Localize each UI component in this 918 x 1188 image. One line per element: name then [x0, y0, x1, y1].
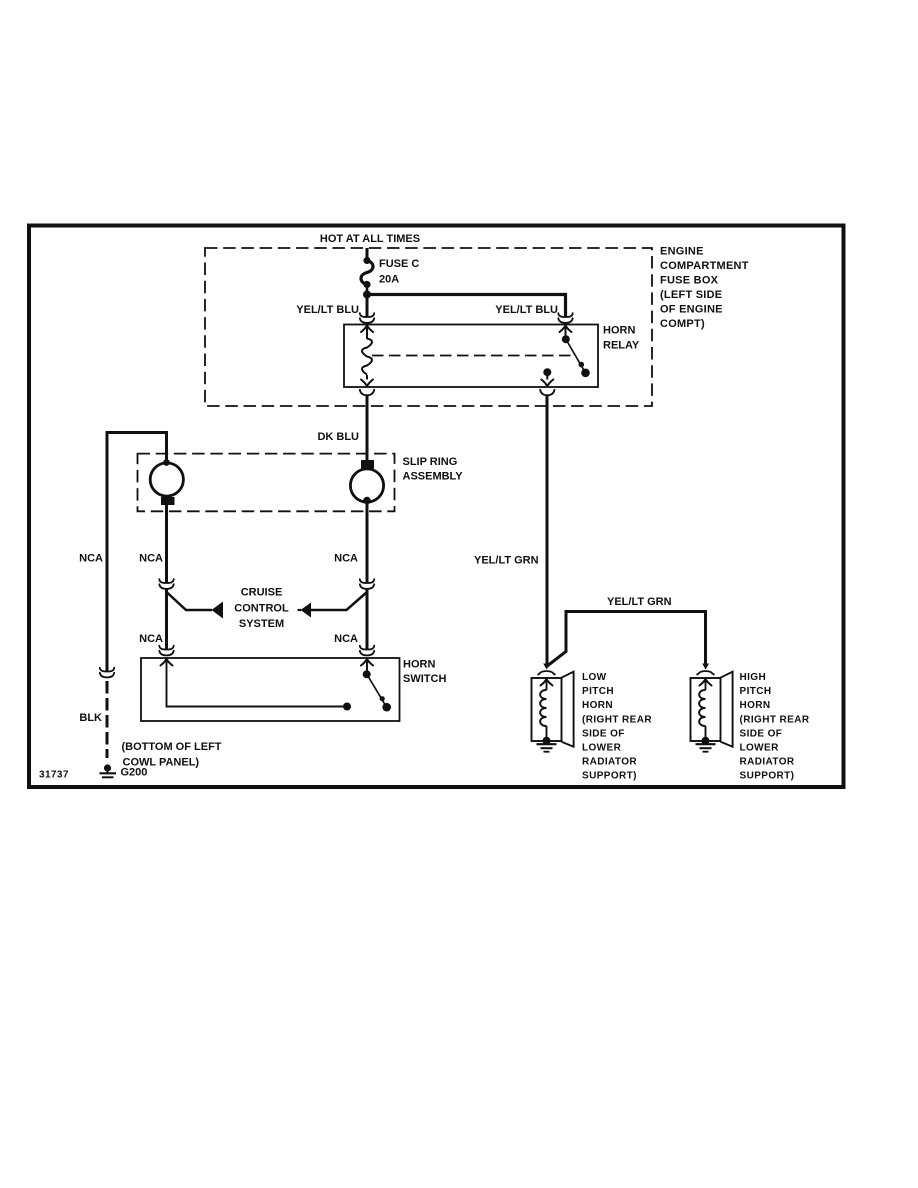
slip ring assembly dashed box	[138, 454, 395, 512]
wire arrow to switch pivot	[565, 326, 567, 340]
svg-text:ENGINE: ENGINE	[660, 246, 704, 258]
svg-text:ASSEMBLY: ASSEMBLY	[403, 470, 464, 482]
label CRUISE CONTROL SYSTEM	[234, 587, 289, 631]
svg-text:OF ENGINE: OF ENGINE	[660, 304, 723, 316]
svg-text:SYSTEM: SYSTEM	[239, 618, 284, 630]
connector (ground leg BLK)	[100, 668, 114, 678]
junction node	[363, 291, 371, 299]
relay switch pivot node	[562, 335, 570, 343]
wire fuse to junction	[366, 285, 369, 295]
svg-text:SIDE OF: SIDE OF	[740, 728, 783, 739]
svg-text:SLIP RING: SLIP RING	[403, 456, 458, 468]
relay coil terminal arrow	[361, 326, 373, 333]
svg-text:FUSE C: FUSE C	[379, 258, 419, 270]
wire right wire between connectors	[366, 589, 369, 650]
label HIGH PITCH HORN	[740, 672, 810, 782]
svg-text:SWITCH: SWITCH	[403, 673, 446, 685]
svg-text:LOWER: LOWER	[582, 743, 622, 754]
slip ring right	[350, 455, 383, 504]
svg-text:G200: G200	[121, 767, 148, 779]
svg-text:PITCH: PITCH	[582, 686, 614, 697]
connector (high pitch horn input)	[697, 671, 714, 674]
connector (left wire row2)	[159, 646, 173, 656]
svg-text:RADIATOR: RADIATOR	[582, 757, 637, 768]
horn switch right terminal arrow	[361, 659, 373, 666]
horn switch fixed contact	[343, 703, 351, 711]
wire bus to right relay input	[367, 295, 566, 318]
svg-text:20A: 20A	[379, 274, 399, 286]
svg-text:YEL/LT BLU: YEL/LT BLU	[296, 304, 359, 316]
connector (right relay input)	[558, 313, 572, 323]
svg-text:(RIGHT REAR: (RIGHT REAR	[740, 714, 810, 725]
high pitch horn	[691, 672, 733, 747]
svg-text:YEL/LT GRN: YEL/LT GRN	[607, 596, 672, 608]
cruise control branch left	[167, 592, 224, 619]
connector C (left relay input)	[360, 313, 374, 323]
svg-text:NCA: NCA	[79, 553, 103, 565]
wire right slip ring down	[366, 501, 369, 584]
svg-text:SUPPORT): SUPPORT)	[740, 771, 795, 782]
wire arrow to coil	[366, 326, 368, 340]
connector (left wire row1)	[159, 579, 173, 589]
connector below relay coil	[360, 390, 374, 396]
svg-text:YEL/LT BLU: YEL/LT BLU	[495, 304, 558, 316]
svg-text:NCA: NCA	[334, 553, 358, 565]
label ENGINE COMPARTMENT FUSE BOX	[660, 246, 749, 331]
svg-text:HORN: HORN	[582, 700, 613, 711]
svg-text:(BOTTOM OF LEFT: (BOTTOM OF LEFT	[122, 741, 222, 753]
svg-text:LOWER: LOWER	[740, 743, 780, 754]
svg-text:YEL/LT GRN: YEL/LT GRN	[474, 555, 539, 567]
svg-text:COMPARTMENT: COMPARTMENT	[660, 260, 749, 272]
relay switch blade	[566, 340, 585, 373]
horn switch left terminal arrow	[161, 659, 173, 666]
svg-text:NCA: NCA	[139, 633, 163, 645]
svg-text:HOT AT ALL TIMES: HOT AT ALL TIMES	[320, 233, 420, 245]
connector (low pitch horn input)	[538, 671, 555, 674]
ground (high pitch horn)	[696, 737, 716, 752]
wire BLK dashed	[106, 681, 109, 758]
relay coil bottom arrow	[361, 380, 373, 387]
slip ring left	[150, 459, 183, 505]
svg-text:RADIATOR: RADIATOR	[740, 757, 795, 768]
svg-text:LOW: LOW	[582, 672, 607, 683]
cruise control branch right	[298, 592, 368, 618]
svg-text:CRUISE: CRUISE	[241, 587, 283, 599]
wire arrow to switch pivot	[366, 659, 368, 671]
page border frame	[29, 226, 844, 788]
horn switch pivot node	[363, 670, 371, 678]
svg-text:(RIGHT REAR: (RIGHT REAR	[582, 714, 652, 725]
horn switch blade	[367, 675, 387, 708]
wire YEL/LT GRN branch to high horn	[547, 612, 706, 667]
svg-text:FUSE BOX: FUSE BOX	[660, 275, 719, 287]
connector (right wire row2)	[360, 646, 374, 656]
svg-text:HIGH: HIGH	[740, 672, 767, 683]
wire coil to bottom arrow	[366, 375, 368, 380]
relay switch terminal arrow	[560, 326, 572, 333]
svg-text:31737: 31737	[39, 770, 69, 781]
wire YEL/LT GRN relay switch down to low horn	[546, 396, 549, 668]
ground G200	[100, 764, 117, 777]
svg-text:CONTROL: CONTROL	[234, 603, 289, 615]
wire left slip ring down	[165, 505, 168, 583]
horn switch box	[141, 658, 400, 721]
svg-text:RELAY: RELAY	[603, 340, 640, 352]
relay actuation dashed link	[372, 355, 571, 357]
engine compartment fuse box (dashed)	[205, 248, 652, 406]
label LOW PITCH HORN	[582, 672, 652, 782]
wire left wire between connectors	[165, 589, 168, 650]
connector below relay switch	[540, 390, 554, 396]
svg-text:SUPPORT): SUPPORT)	[582, 771, 637, 782]
svg-text:COMPT): COMPT)	[660, 318, 705, 330]
svg-text:(LEFT SIDE: (LEFT SIDE	[660, 289, 722, 301]
ground (low pitch horn)	[537, 737, 557, 752]
wire from hot feed to fuse	[366, 248, 369, 259]
svg-text:NCA: NCA	[139, 553, 163, 565]
wire ground leg: top link	[107, 433, 167, 672]
wire DK BLU relay coil to right slip ring	[366, 396, 369, 461]
low pitch horn	[532, 672, 574, 747]
wire down to left relay input	[366, 295, 369, 318]
relay coil	[362, 339, 372, 375]
svg-text:HORN: HORN	[740, 700, 771, 711]
svg-text:HORN: HORN	[403, 659, 435, 671]
svg-text:HORN: HORN	[603, 325, 635, 337]
connector (right wire row1)	[360, 579, 374, 589]
horn relay box	[344, 325, 598, 388]
relay switch fixed contact	[543, 368, 551, 376]
svg-text:DK BLU: DK BLU	[317, 431, 359, 443]
svg-text:PITCH: PITCH	[740, 686, 772, 697]
svg-text:BLK: BLK	[79, 712, 102, 724]
horn switch internal wire	[167, 659, 348, 707]
svg-text:SIDE OF: SIDE OF	[582, 728, 625, 739]
svg-text:NCA: NCA	[334, 633, 358, 645]
fuse C 20A symbol	[361, 257, 373, 288]
